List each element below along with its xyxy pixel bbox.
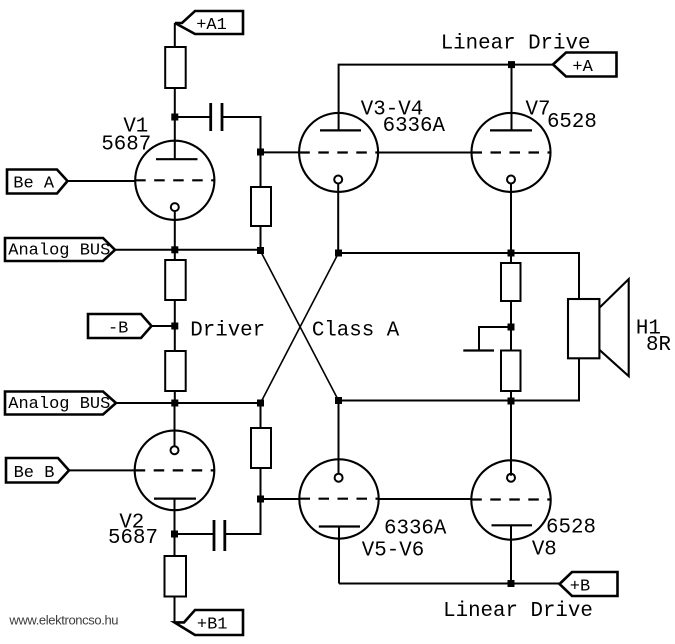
net flag Analog BUS (lower) (5, 392, 116, 415)
label V7 (526, 99, 551, 122)
svg-text:-B: -B (108, 320, 128, 339)
wire V3-V4 grid to V7 grid (378, 152, 472, 154)
svg-text:6528: 6528 (547, 111, 597, 134)
node V7 cathode junction (508, 250, 515, 257)
power flag +B (560, 572, 618, 596)
triode V3-V4 (299, 113, 378, 253)
node diagonal start upper (257, 247, 264, 254)
triode V5-V6 (299, 401, 378, 584)
svg-text:Driver: Driver (190, 320, 265, 343)
node top bus junction (508, 61, 515, 68)
label H1 (636, 318, 661, 341)
svg-text:Linear Drive: Linear Drive (443, 600, 593, 623)
label V8 (532, 539, 557, 562)
resistor R3 (165, 250, 186, 326)
node V2 anode junction (171, 531, 178, 538)
resistor R8 (501, 327, 521, 401)
capacitor C2 (214, 520, 225, 551)
node grid bus A (257, 149, 264, 156)
triode V8 (471, 401, 550, 584)
label Linear Drive (top) (441, 33, 591, 56)
feedback tap symbol (463, 327, 511, 351)
wire junction to C2 (175, 533, 214, 535)
node V1 cathode junction (171, 246, 178, 253)
input flag Be B (6, 458, 69, 483)
svg-text:V8: V8 (532, 539, 557, 562)
wire junction to C1 (175, 116, 210, 118)
power flag +A1 (175, 11, 243, 35)
label V1 (123, 116, 148, 139)
svg-text:Analog BUS: Analog BUS (8, 241, 110, 260)
wire C1 to grid node (223, 117, 261, 152)
wire +A1 to R1 (174, 23, 176, 47)
resistor R5 (251, 403, 271, 499)
wire grid node B to V5-V6 grid (261, 498, 300, 500)
wire V5-V6 grid to V8 grid (379, 498, 472, 500)
svg-text:6528: 6528 (546, 517, 596, 540)
wire V3-V4 anode to top bus (339, 65, 512, 131)
svg-text:+B1: +B1 (197, 616, 228, 635)
svg-text:6336A: 6336A (383, 115, 446, 138)
wire -B to node (152, 325, 175, 327)
wire cathode bus upper (339, 253, 580, 299)
resistor R6 (165, 534, 187, 622)
svg-text:Be B: Be B (14, 464, 55, 483)
capacitor C1 (211, 103, 222, 131)
svg-text:+A: +A (572, 58, 593, 77)
triode V7 (472, 65, 551, 253)
wire cathode bus lower (339, 358, 580, 400)
speaker H1 (568, 279, 629, 376)
node grid bus B (257, 496, 264, 503)
svg-text:Linear Drive: Linear Drive (441, 33, 591, 56)
wire diagonal A (upper-left to lower-right) (261, 251, 339, 401)
label 5687 (V1) (101, 133, 151, 156)
svg-text:8R: 8R (646, 334, 671, 357)
label 6528 (V8) (546, 517, 596, 540)
resistor R1 (165, 47, 186, 117)
power flag +B1 (175, 610, 244, 635)
node -B junction (171, 323, 178, 330)
label 6336A (bottom) (384, 518, 447, 541)
wire diagonal B (upper-right to lower-left) (261, 253, 339, 403)
label 8R (646, 334, 671, 357)
watermark www.elektroncso.hu (8, 612, 118, 627)
resistor R2 (251, 152, 271, 251)
svg-text:5687: 5687 (108, 527, 158, 550)
svg-text:V5-V6: V5-V6 (362, 540, 424, 563)
resistor R7 (501, 253, 521, 327)
label 6336A (top) (383, 115, 446, 138)
label Linear Drive (bottom) (443, 600, 593, 623)
wire Analog BUS lower (116, 402, 261, 404)
svg-text:6336A: 6336A (384, 518, 447, 541)
node bottom bus junction (508, 580, 515, 587)
wire Be B to V2 grid (69, 469, 136, 471)
wire top bus to +A flag (512, 64, 554, 66)
power flag -B (88, 314, 152, 339)
node V1 anode junction (171, 114, 178, 121)
resistor R4 (165, 326, 186, 403)
node V8 cathode junction (508, 398, 515, 405)
wire Be A to V1 grid (68, 180, 137, 182)
wire Analog BUS upper (115, 249, 261, 251)
label Driver (190, 320, 265, 343)
net flag Analog BUS (upper) (5, 238, 115, 261)
wire C2 to grid node B (226, 499, 261, 534)
label V2 (119, 512, 144, 535)
label V3-V4 (361, 99, 423, 122)
wire bottom bus (339, 583, 560, 585)
wire grid node to V3-V4 grid (261, 151, 300, 153)
node diagonal end lower (257, 400, 264, 407)
triode V2 (135, 403, 215, 534)
node feedback tap junction (508, 324, 515, 331)
label Class A (312, 320, 400, 343)
svg-text:Be A: Be A (13, 175, 55, 194)
node V3-V4 cathode junction (335, 250, 342, 257)
triode V1 (135, 117, 214, 250)
node V5-V6 cathode junction (335, 397, 342, 404)
svg-text:5687: 5687 (101, 133, 151, 156)
svg-text:+A1: +A1 (196, 16, 227, 35)
svg-text:+B: +B (570, 577, 590, 596)
label V5-V6 (362, 540, 424, 563)
svg-text:Class A: Class A (312, 320, 400, 343)
power flag +A (553, 53, 617, 77)
input flag Be A (7, 170, 68, 194)
label 6528 (V7) (547, 111, 597, 134)
svg-text:www.elektroncso.hu: www.elektroncso.hu (8, 612, 118, 627)
node V2 cathode junction (171, 400, 178, 407)
label 5687 (V2) (108, 527, 158, 550)
svg-text:Analog BUS: Analog BUS (8, 395, 110, 414)
